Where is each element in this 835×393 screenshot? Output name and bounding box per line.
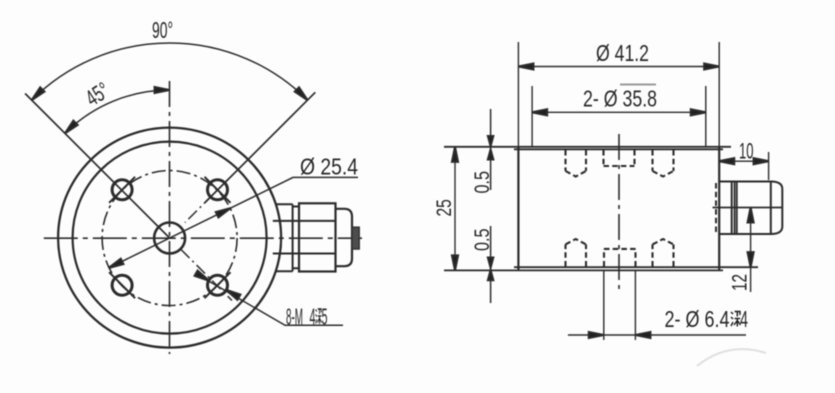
90 arc arrow right — [295, 87, 310, 102]
arrow 12 top — [748, 208, 754, 223]
arrow D6.4 left — [589, 332, 604, 338]
radial line 135deg — [25, 94, 170, 239]
label 45deg — [81, 77, 114, 111]
dim line D6.4 — [568, 334, 746, 336]
arrow 12 bottom — [748, 252, 754, 267]
connector plug dark — [352, 227, 359, 249]
arrow 0.5 top upper — [488, 136, 493, 146]
connector double line — [735, 182, 737, 235]
vertical centerline — [169, 81, 171, 354]
bolt arc chord TR — [205, 177, 231, 203]
dim line D25.4 — [109, 177, 358, 268]
top slot center — [604, 150, 635, 166]
top lip lower line — [514, 148, 723, 150]
arrow 0.5 top lower — [488, 150, 493, 160]
arrow D6.4 right — [635, 332, 650, 338]
arrow D25.4 upper-right — [216, 205, 232, 217]
body right edge — [718, 147, 720, 270]
dim 0.5 bottom line — [490, 226, 492, 303]
connector line 2 — [770, 182, 772, 235]
arrow 25 top — [452, 147, 458, 162]
svg-text:45°: 45° — [81, 77, 114, 111]
45 deg dimension arc — [65, 90, 170, 133]
svg-text:5: 5 — [322, 304, 328, 330]
arrow D35.8 right — [691, 109, 706, 115]
ext line D35.8 right — [705, 86, 707, 146]
45 arc arrow top — [155, 87, 170, 93]
ext line 10 right — [768, 152, 770, 180]
svg-text:Ø 25.4: Ø 25.4 — [300, 154, 358, 180]
bottom slot center — [604, 249, 636, 267]
svg-text:4: 4 — [310, 304, 316, 330]
ext line D41.2 right — [718, 42, 720, 146]
cable gland cap — [336, 209, 353, 266]
ext line D35.8 left — [531, 86, 533, 146]
bolt arc chord TL — [109, 177, 135, 203]
cable gland main block — [299, 203, 336, 271]
label 0.5 bottom — [471, 229, 494, 252]
top slot left — [566, 150, 587, 177]
90 arc arrow left — [30, 87, 45, 102]
faint watermark arc — [697, 349, 766, 366]
svg-text:90°: 90° — [152, 17, 173, 43]
cable gland hex section — [276, 204, 293, 271]
outer circle — [58, 128, 281, 348]
svg-text:10: 10 — [739, 138, 754, 163]
body bottom upper line — [514, 266, 758, 268]
arrow 0.5 bottom lower — [488, 270, 493, 280]
hole bottom-right — [208, 275, 228, 295]
bottom slot right — [653, 239, 674, 267]
radial dash 315deg — [181, 250, 232, 301]
cable gland hex lines — [273, 221, 336, 254]
connector top edge — [719, 181, 772, 183]
body top edge long — [444, 146, 731, 148]
arrow D35.8 left — [532, 109, 547, 115]
svg-text:2- Ø 35.8: 2- Ø 35.8 — [583, 86, 657, 112]
label 12 — [729, 274, 752, 291]
side centerline vertical — [618, 134, 620, 290]
bottom slot left — [566, 239, 587, 267]
bolt arc chord BL — [109, 272, 135, 298]
bolt circle (dash-dot) — [102, 171, 237, 306]
ext line D41.2 left — [517, 42, 519, 146]
arrow 8-M4 lower — [224, 287, 240, 300]
arrow 8-M4 upper — [195, 271, 211, 284]
second circle — [73, 142, 267, 334]
ext line hole left — [603, 270, 605, 340]
45 arc arrow left — [63, 121, 78, 136]
horizontal centerline — [44, 237, 362, 239]
center hole — [154, 223, 185, 254]
svg-text:Ø 41.2: Ø 41.2 — [596, 40, 649, 66]
svg-text:4: 4 — [740, 306, 748, 332]
svg-text:0.5: 0.5 — [471, 229, 494, 252]
connector line 1 — [731, 182, 733, 235]
arrow 10 left — [719, 158, 734, 164]
dim line 10 — [719, 160, 768, 162]
svg-text:25: 25 — [433, 199, 456, 216]
90 deg dimension arc — [32, 43, 308, 100]
connector cap — [771, 182, 783, 235]
arrow 0.5 bottom upper — [488, 258, 493, 268]
arrow D41.2 right — [704, 64, 719, 70]
dim line 25 — [454, 147, 456, 271]
hole top-left — [112, 180, 132, 200]
dim 0.5 top line — [490, 109, 492, 190]
radial dash 45deg inner — [185, 180, 228, 223]
arrow 10 right — [754, 158, 769, 164]
svg-text:12: 12 — [729, 274, 752, 291]
hole top-right — [208, 180, 228, 200]
body bottom edge long — [444, 269, 723, 271]
svg-text:8-M: 8-M — [286, 304, 303, 330]
connector bottom edge — [719, 233, 772, 235]
svg-text:2- Ø 6.4: 2- Ø 6.4 — [665, 306, 730, 332]
connector mid line — [713, 207, 783, 209]
svg-text:0.5: 0.5 — [471, 171, 494, 194]
label 25 — [433, 199, 456, 216]
ext line hole right — [634, 270, 636, 340]
body left edge — [517, 147, 519, 270]
top slot right — [653, 150, 674, 177]
arrow D25.4 lower-left — [107, 259, 123, 271]
leader 8-M4 — [196, 274, 343, 326]
dim line 12 — [750, 208, 752, 293]
arrow 25 bottom — [452, 255, 458, 270]
cable gland washer — [293, 207, 299, 269]
dim line D35.8 — [532, 111, 706, 113]
faint artifact streak — [620, 84, 656, 86]
hole bottom-left — [112, 275, 132, 295]
bolt arc chord BR — [205, 272, 231, 298]
connector hidden dashes — [715, 183, 717, 233]
dim line D41.2 — [518, 66, 719, 68]
arrow D41.2 left — [518, 64, 533, 70]
radial line 45deg — [205, 92, 315, 202]
label 0.5 top — [471, 171, 494, 194]
